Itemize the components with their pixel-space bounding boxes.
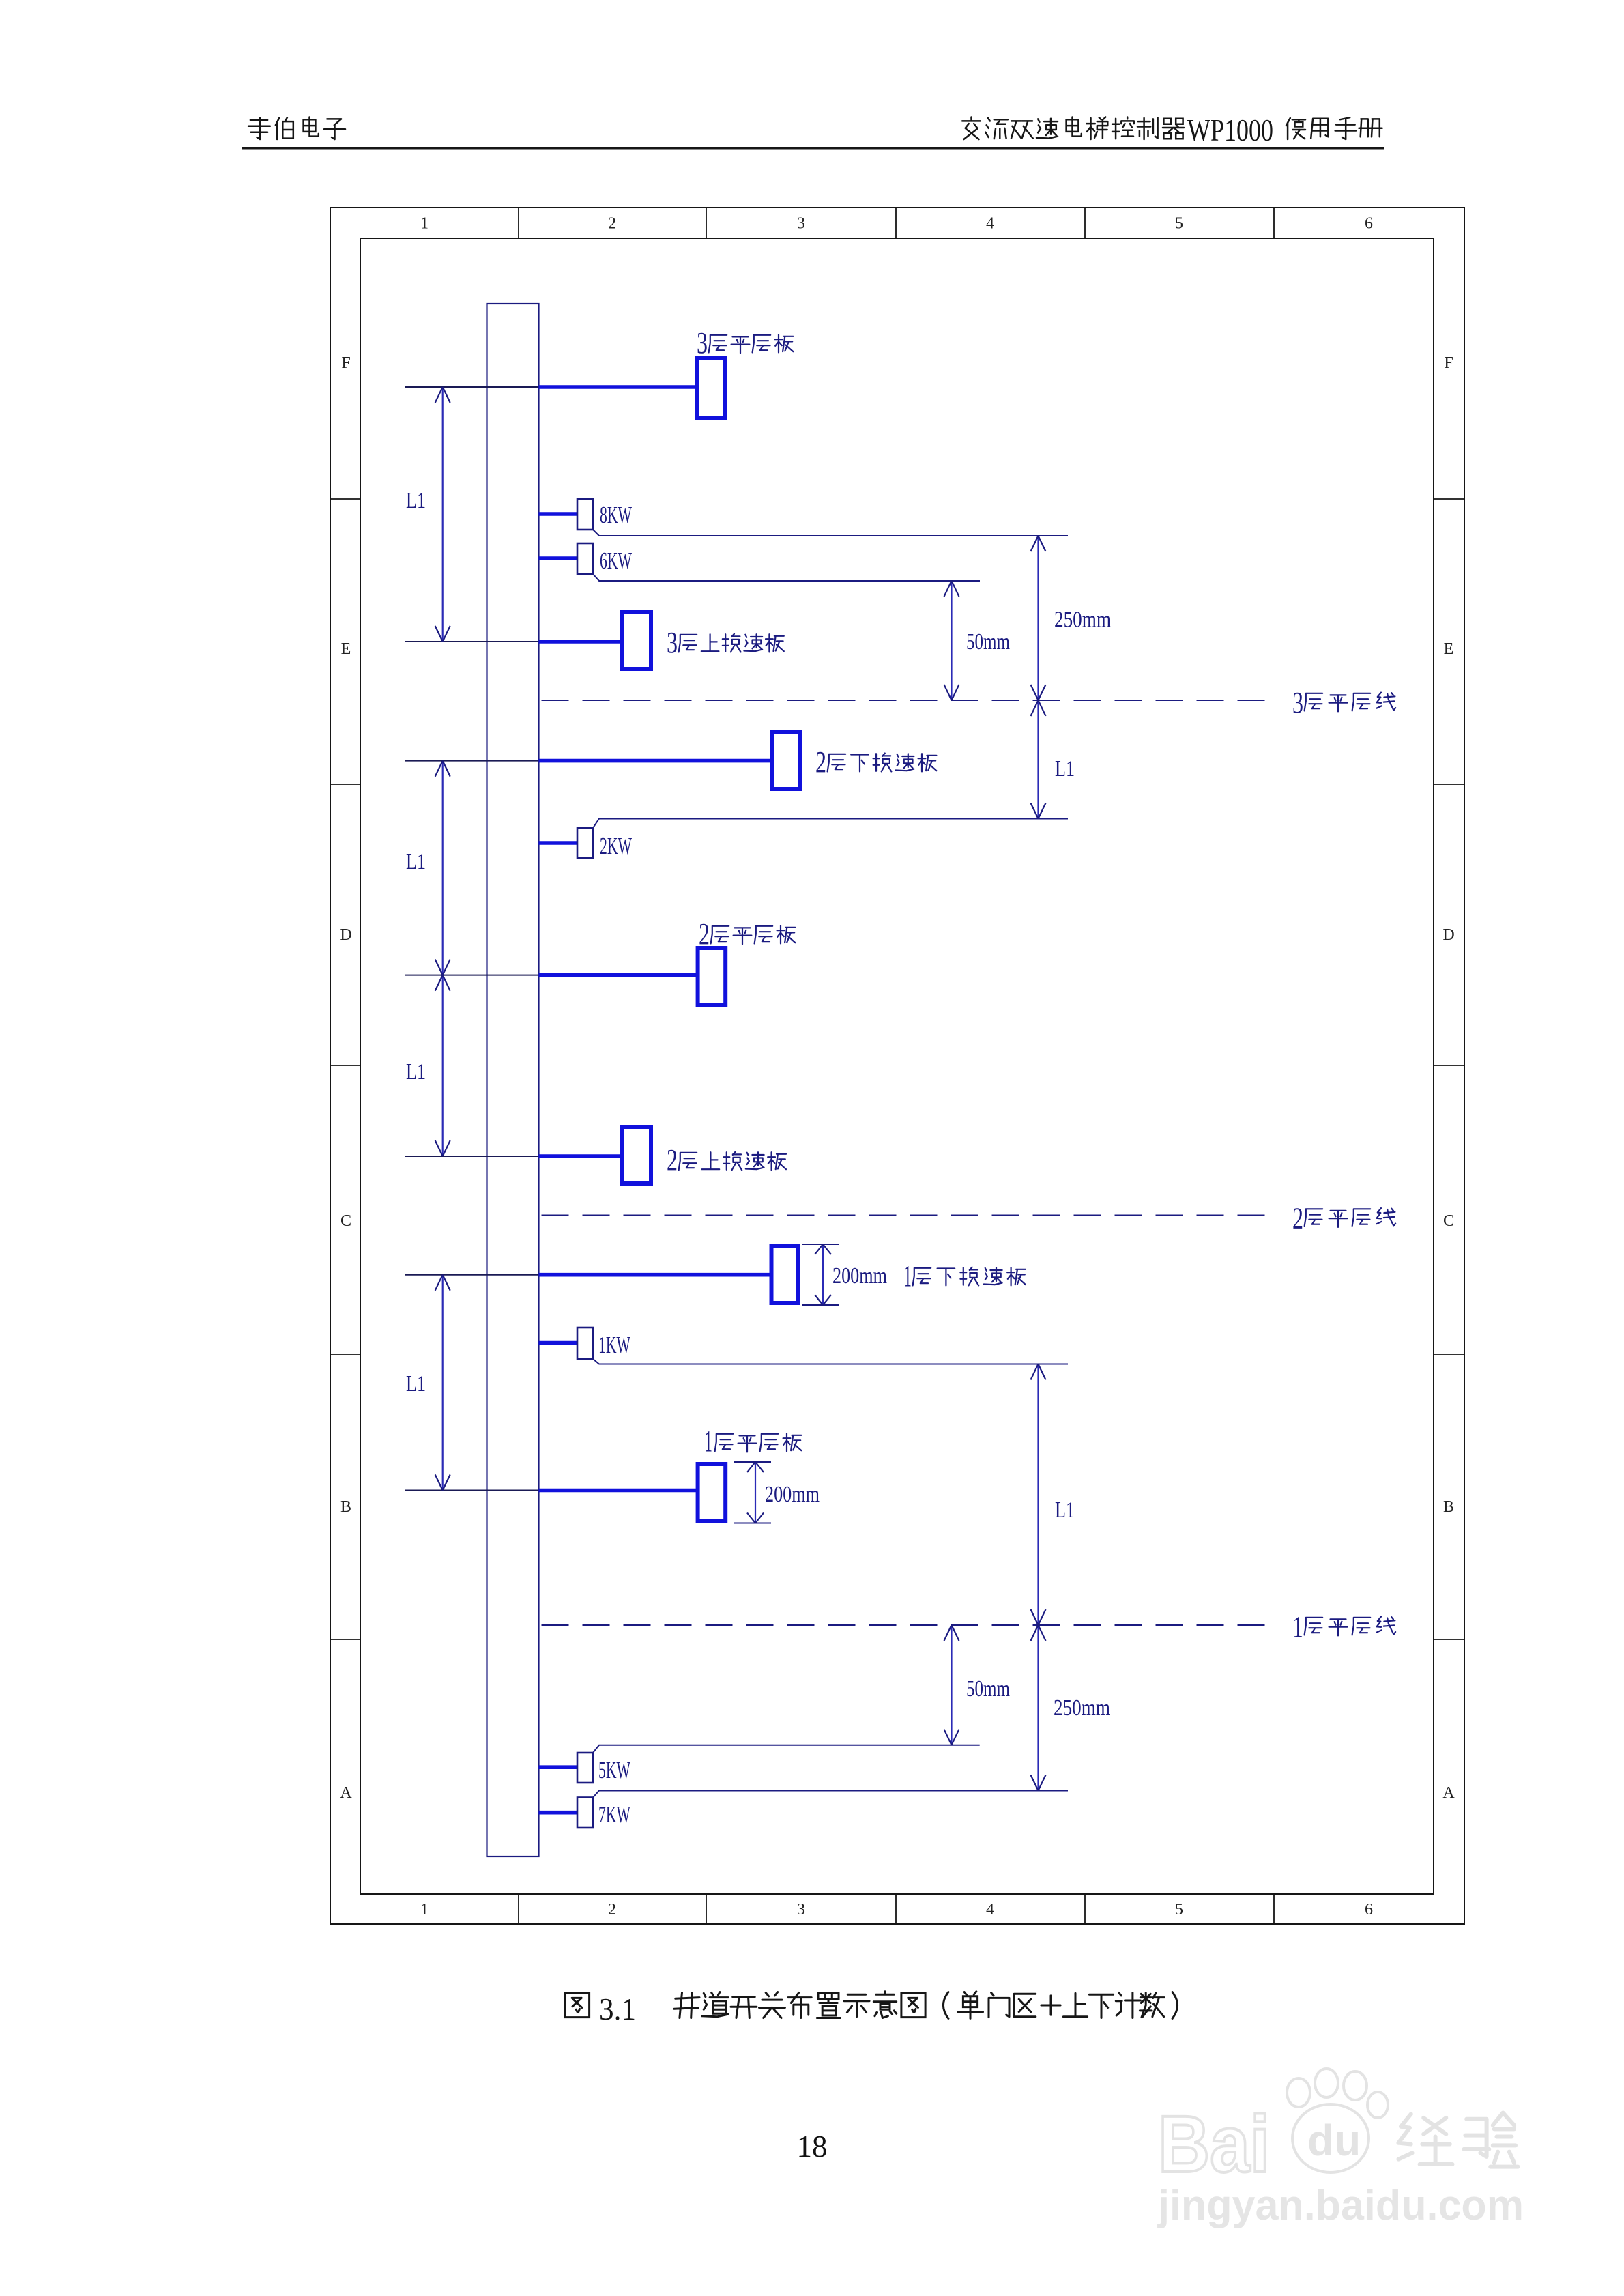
- svg-text:D: D: [340, 926, 351, 944]
- svg-text:E: E: [341, 640, 351, 658]
- svg-text:2: 2: [1292, 1202, 1303, 1235]
- svg-text:50mm: 50mm: [966, 629, 1010, 655]
- svg-text:jingyan.baidu.com: jingyan.baidu.com: [1157, 2182, 1524, 2229]
- svg-text:B: B: [1443, 1498, 1454, 1516]
- svg-text:A: A: [1442, 1784, 1455, 1802]
- svg-text:5: 5: [1175, 215, 1183, 233]
- svg-text:1: 1: [704, 1424, 712, 1458]
- svg-text:L1: L1: [1055, 756, 1075, 781]
- svg-text:3: 3: [667, 626, 678, 659]
- svg-text:2: 2: [699, 917, 710, 951]
- svg-text:2: 2: [815, 745, 826, 779]
- svg-text:6: 6: [1365, 215, 1373, 233]
- svg-text:6: 6: [1365, 1901, 1373, 1919]
- svg-text:8KW: 8KW: [600, 502, 632, 528]
- svg-text:E: E: [1444, 640, 1454, 658]
- svg-text:B: B: [340, 1498, 351, 1516]
- svg-text:Bai: Bai: [1158, 2099, 1270, 2190]
- svg-text:C: C: [1443, 1212, 1454, 1230]
- svg-text:L1: L1: [406, 1371, 426, 1396]
- svg-text:A: A: [340, 1784, 352, 1802]
- svg-text:6KW: 6KW: [600, 547, 632, 574]
- svg-text:1: 1: [420, 1901, 429, 1919]
- svg-text:3: 3: [697, 326, 708, 360]
- svg-text:3.1: 3.1: [599, 1992, 636, 2026]
- svg-text:du: du: [1307, 2116, 1361, 2165]
- svg-text:3: 3: [797, 1901, 805, 1919]
- svg-text:7KW: 7KW: [598, 1801, 630, 1828]
- svg-text:1: 1: [1292, 1610, 1303, 1644]
- svg-text:250mm: 250mm: [1054, 1695, 1110, 1721]
- svg-text:2KW: 2KW: [600, 833, 632, 859]
- svg-text:F: F: [341, 354, 350, 372]
- svg-text:WP1000: WP1000: [1187, 113, 1273, 147]
- svg-text:C: C: [340, 1212, 351, 1230]
- svg-text:1KW: 1KW: [598, 1332, 630, 1358]
- svg-text:2: 2: [667, 1143, 678, 1177]
- svg-text:1: 1: [420, 215, 429, 233]
- svg-text:1: 1: [903, 1259, 912, 1293]
- svg-text:2: 2: [608, 215, 616, 233]
- svg-text:L1: L1: [406, 1059, 426, 1085]
- svg-text:18: 18: [797, 2129, 828, 2164]
- svg-text:3: 3: [1292, 686, 1303, 719]
- svg-text:D: D: [1442, 926, 1454, 944]
- svg-text:F: F: [1444, 354, 1453, 372]
- svg-text:L1: L1: [406, 488, 426, 513]
- svg-text:200mm: 200mm: [832, 1263, 887, 1289]
- svg-text:250mm: 250mm: [1054, 607, 1111, 633]
- svg-text:3: 3: [797, 215, 805, 233]
- svg-text:L1: L1: [406, 849, 426, 874]
- svg-text:2: 2: [608, 1901, 616, 1919]
- svg-text:5: 5: [1175, 1901, 1183, 1919]
- svg-text:4: 4: [986, 1901, 994, 1919]
- svg-text:4: 4: [986, 215, 994, 233]
- svg-text:5KW: 5KW: [598, 1757, 630, 1783]
- svg-text:50mm: 50mm: [966, 1676, 1010, 1702]
- svg-text:200mm: 200mm: [765, 1482, 820, 1507]
- svg-text:L1: L1: [1055, 1497, 1075, 1523]
